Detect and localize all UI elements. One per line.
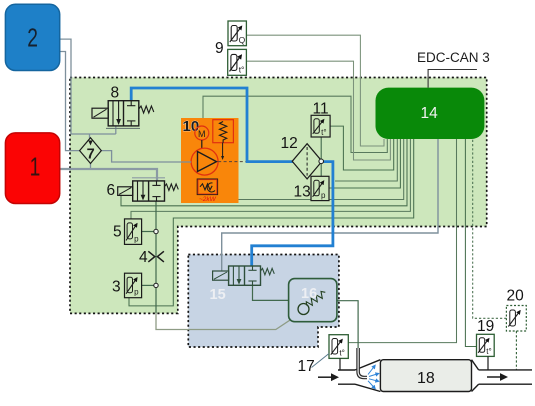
svg-text:17: 17	[298, 358, 315, 375]
svg-text:7: 7	[87, 147, 95, 163]
svg-text:2: 2	[27, 23, 38, 53]
svg-text:1: 1	[30, 152, 41, 182]
svg-text:11: 11	[313, 101, 329, 118]
svg-text:~2kW: ~2kW	[199, 196, 217, 203]
svg-text:t°: t°	[486, 347, 491, 356]
svg-text:18: 18	[417, 370, 435, 387]
svg-text:19: 19	[477, 318, 494, 335]
svg-text:5: 5	[113, 224, 122, 241]
svg-text:10: 10	[183, 118, 200, 135]
svg-text:t°: t°	[339, 349, 344, 358]
svg-text:12: 12	[281, 135, 298, 152]
svg-text:8: 8	[111, 84, 120, 101]
svg-text:t°: t°	[321, 128, 326, 137]
svg-text:6: 6	[107, 182, 116, 199]
svg-text:Q: Q	[239, 35, 246, 45]
svg-text:p: p	[321, 191, 326, 200]
svg-text:p: p	[134, 234, 139, 243]
svg-text:9: 9	[215, 40, 224, 57]
svg-text:13: 13	[294, 184, 311, 201]
svg-text:M: M	[198, 129, 206, 139]
svg-text:p: p	[134, 288, 139, 297]
svg-text:t°: t°	[239, 64, 245, 74]
svg-text:EDC-CAN 3: EDC-CAN 3	[417, 50, 490, 65]
svg-text:16: 16	[301, 286, 317, 302]
svg-text:4: 4	[139, 249, 148, 266]
svg-text:20: 20	[507, 288, 525, 305]
svg-text:15: 15	[210, 287, 226, 303]
svg-text:14: 14	[421, 105, 439, 122]
svg-text:3: 3	[112, 279, 121, 296]
